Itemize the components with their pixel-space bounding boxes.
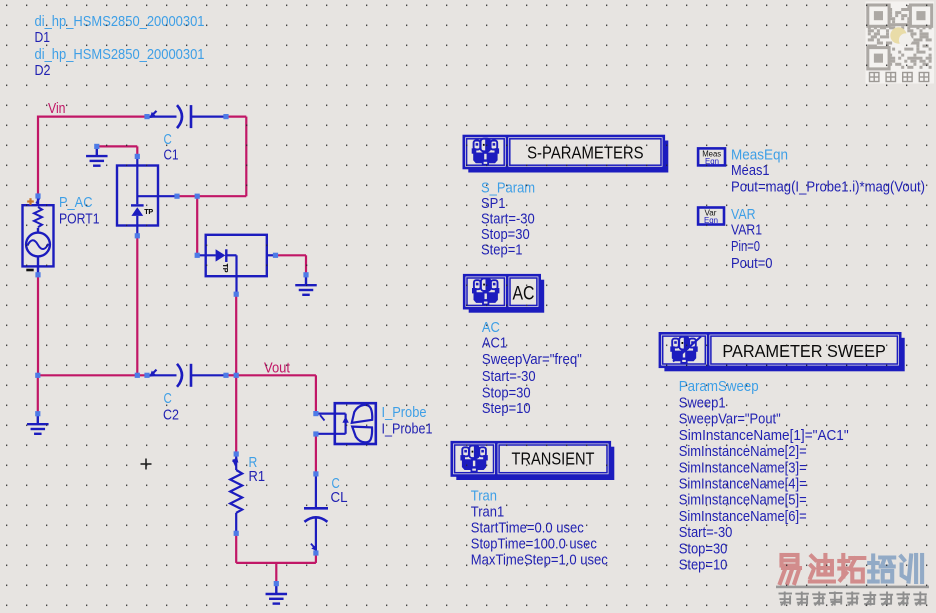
junction node <box>313 431 318 436</box>
junction node <box>234 292 239 297</box>
equation icon MeasEqn Meas1 <box>698 148 725 166</box>
cursor plus mark <box>141 459 152 470</box>
junction node <box>195 194 200 199</box>
junction node <box>135 154 140 159</box>
wire D2 bottom down <box>235 296 237 374</box>
wire ground to D1 top <box>97 145 138 147</box>
junction node <box>35 193 40 198</box>
ground top near D1 <box>86 146 108 165</box>
wire to lower ground <box>37 376 39 412</box>
capacitor C1 <box>149 105 224 128</box>
junction node <box>234 451 239 456</box>
junction node <box>234 531 239 536</box>
junction node <box>273 253 278 258</box>
resistor R1 <box>230 456 242 531</box>
junction node <box>135 233 140 238</box>
simulation box TRANSIENT <box>452 442 615 480</box>
simulation box S-PARAMETERS <box>464 136 669 173</box>
wire C1 to corner <box>227 115 246 117</box>
diode D2 <box>199 235 275 293</box>
minus polarity mark PORT1 <box>26 269 33 272</box>
junction node <box>223 114 228 119</box>
wire D1 anode row <box>178 195 246 197</box>
wire right vertical <box>245 117 247 197</box>
wire D2 to ground corner <box>277 254 306 256</box>
junction node <box>35 272 40 277</box>
wire I_Probe to CL <box>315 436 317 473</box>
junction node <box>195 253 200 258</box>
junction node <box>313 411 318 416</box>
ground bottom middle <box>266 584 288 603</box>
junction node <box>35 373 40 378</box>
wire Vout row right <box>236 374 316 376</box>
capacitor C2 <box>149 364 224 387</box>
wire down to I_Probe <box>315 375 317 412</box>
wire down to right ground <box>305 255 307 273</box>
wire junction to R1 <box>235 377 237 452</box>
wire PORT1 bottom down <box>37 277 39 375</box>
current probe I_Probe1 <box>318 403 376 444</box>
junction node <box>94 144 99 149</box>
watermark logo text (CJK) <box>780 555 800 583</box>
junction node <box>274 581 279 586</box>
junction node <box>135 373 140 378</box>
junction node <box>35 411 40 416</box>
AC source PORT1 <box>23 198 54 274</box>
junction node <box>313 550 318 555</box>
junction node <box>144 373 149 378</box>
wire Vout row left <box>38 374 145 376</box>
wire R1 bottom down <box>235 535 237 563</box>
watermark underline <box>776 586 929 589</box>
ground bottom left <box>27 415 49 434</box>
wire C2 to junction <box>227 374 236 376</box>
text WeChat contact (CJK) <box>870 73 929 82</box>
simulation box AC <box>464 275 544 313</box>
watermark slogan text (CJK) <box>779 592 927 606</box>
junction node <box>174 194 179 199</box>
junction node <box>144 114 149 119</box>
capacitor CL <box>304 476 328 552</box>
wire D1 cathode down <box>136 238 138 375</box>
wire down to D2 <box>196 196 198 253</box>
plus polarity mark PORT1 <box>27 198 34 205</box>
simulation box PARAMETER SWEEP <box>660 333 905 371</box>
junction node <box>313 471 318 476</box>
wire bottom row <box>236 562 316 564</box>
junction node <box>303 272 308 277</box>
wire into D1 top node <box>136 146 138 154</box>
junction node <box>223 373 228 378</box>
wire CL to bottom row <box>315 555 317 563</box>
junction node <box>234 373 239 378</box>
wire to bottom ground <box>275 563 277 582</box>
wire Vin to PORT1 <box>37 116 39 195</box>
diode D1 <box>117 157 176 234</box>
ground right of D2 <box>295 276 317 295</box>
variable icon VAR VAR1 <box>698 208 724 226</box>
wire Vin horizontal <box>38 115 145 117</box>
